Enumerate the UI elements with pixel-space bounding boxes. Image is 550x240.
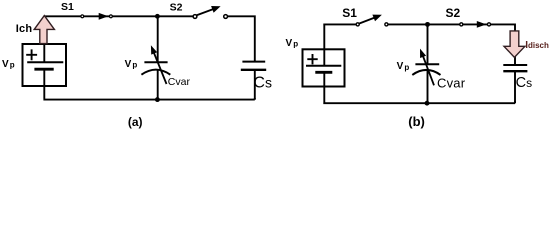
node top (b) junction dot (425, 22, 430, 27)
switch S1 (b) open : contact circles (356, 23, 359, 26)
wire Cvar branch bottom (b) (427, 70, 429, 103)
switch S2 (a) blade arrowhead (211, 3, 222, 13)
battery Vp box (b) (303, 49, 345, 86)
wire bottom (a) with left battery lead (43, 86, 254, 100)
svg-text:Cs: Cs (253, 75, 272, 92)
capacitor Cvar (b) curved plate (412, 70, 440, 75)
switch S1 (a) closed : contact circles (81, 15, 84, 18)
svg-text:Cvar: Cvar (437, 76, 466, 91)
svg-text:Cs: Cs (516, 75, 532, 91)
capacitor Cs (b) top plate (503, 64, 527, 66)
capacitor Cvar (a) variable arrow (153, 51, 166, 84)
capacitor Cvar (b) variable arrow (422, 54, 434, 85)
svg-text:S2: S2 (170, 1, 183, 13)
svg-text:Ich: Ich (16, 23, 33, 35)
battery Vp cell (a) (27, 44, 63, 86)
svg-text:Idisch: Idisch (525, 40, 549, 51)
battery plus sign (a) (26, 49, 37, 60)
battery plus sign (b) (307, 54, 317, 64)
capacitor Cs (a) top plate (242, 61, 265, 63)
switch S2 (b) blade arrowhead (477, 21, 487, 28)
wire top (a) right segment + right branch down (226, 16, 255, 61)
svg-text:(a): (a) (128, 115, 143, 129)
node bottom (a) junction dot (155, 97, 160, 102)
svg-text:Vp: Vp (397, 61, 410, 72)
switch S1 (b) blade arrowhead (372, 11, 383, 21)
wire right branch below Cs (b) (514, 72, 516, 103)
svg-text:S2: S2 (446, 6, 461, 20)
node A top (a) junction dot (155, 14, 160, 19)
switch S2 (b) closed : contact circles (460, 23, 463, 26)
svg-text:Vp: Vp (2, 59, 15, 70)
svg-text:Vp: Vp (286, 38, 299, 49)
capacitor Cvar (a) top plate (144, 61, 167, 63)
svg-text:(b): (b) (408, 114, 425, 129)
capacitor Cvar (a) curved plate (141, 70, 170, 75)
capacitor Cs (a) bottom plate (241, 69, 266, 71)
wire top (b) right segment + right branch down (386, 24, 515, 64)
svg-text:S1: S1 (61, 1, 74, 13)
battery Vp cell (b) (306, 49, 341, 86)
switch S2 (a) blade (196, 9, 215, 16)
svg-text:Vp: Vp (125, 59, 138, 70)
capacitor Cs (b) bottom plate (503, 70, 527, 72)
wire bottom (b) with left battery lead (323, 87, 515, 104)
wire top (a) left segment (44, 15, 194, 17)
current arrow Ich (34, 16, 54, 44)
switch S2 (a) open : contact circles (193, 15, 197, 19)
svg-text:S1: S1 (342, 6, 357, 20)
switch S1 (a) blade arrowhead (99, 13, 109, 20)
current arrow Idisch (504, 31, 525, 57)
wire Cvar branch top (b) (427, 24, 429, 64)
node bottom (b) junction dot (425, 101, 430, 106)
capacitor Cvar (b) top plate (415, 63, 439, 65)
wire right branch below Cs (a) (254, 71, 256, 100)
battery Vp box (a) (23, 44, 67, 86)
wire Cvar branch bottom (a) (157, 70, 159, 100)
wire top (b) left segment with battery lead (323, 24, 357, 49)
wire Cvar branch top (a) (157, 16, 159, 62)
svg-text:Cvar: Cvar (168, 76, 191, 88)
switch S1 (b) blade (359, 17, 376, 24)
